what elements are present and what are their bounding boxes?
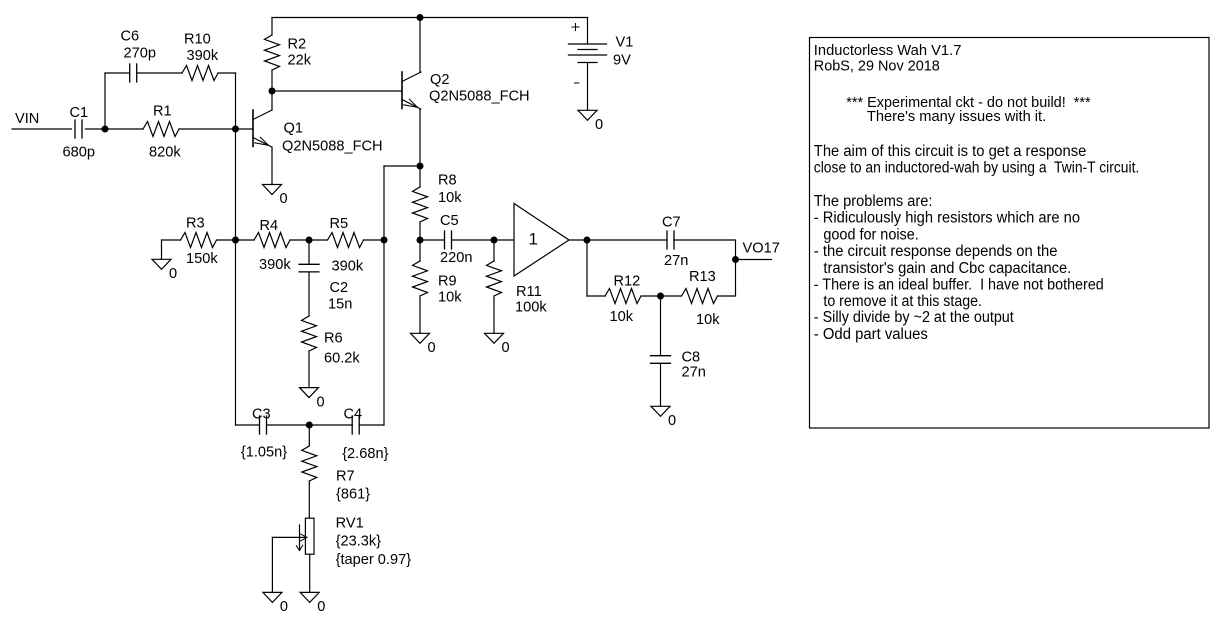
svg-text:9V: 9V xyxy=(613,53,631,69)
svg-text:- There is an ideal buffer. I: - There is an ideal buffer. I have not b… xyxy=(814,277,1104,294)
svg-text:R4: R4 xyxy=(260,218,279,234)
op-amp buffer U1 xyxy=(514,204,569,277)
wire node C to C4 xyxy=(309,424,352,426)
svg-text:0: 0 xyxy=(280,599,288,615)
wire VO17 stub xyxy=(736,259,772,261)
svg-text:C4: C4 xyxy=(344,407,363,423)
wire to C6 xyxy=(105,72,130,74)
wire Q1 emitter down xyxy=(271,147,273,185)
wire Q1 collector up xyxy=(271,91,273,110)
wire to buffer xyxy=(494,239,514,241)
wire right column down to C4 row xyxy=(383,166,385,425)
ground R11 xyxy=(485,333,504,343)
svg-text:150k: 150k xyxy=(186,251,218,267)
svg-text:C3: C3 xyxy=(252,407,271,423)
svg-text:The aim of this circuit is to: The aim of this circuit is to get a resp… xyxy=(814,143,1087,160)
svg-text:0: 0 xyxy=(317,599,325,615)
svg-text:{1.05n}: {1.05n} xyxy=(241,445,287,461)
wire C3 row left corner xyxy=(236,424,260,426)
wire C6/R10 column down xyxy=(235,73,237,129)
ground C8 xyxy=(651,406,670,416)
svg-text:0: 0 xyxy=(668,413,676,429)
wire node B to Q1 base xyxy=(236,128,254,130)
wire node A up to C6 row xyxy=(104,73,106,129)
wire Q2 emitter down xyxy=(419,109,421,166)
svg-text:Q1: Q1 xyxy=(284,121,303,137)
svg-text:390k: 390k xyxy=(259,257,291,273)
wire C4 right corner xyxy=(359,424,384,426)
resistor R2 xyxy=(271,18,273,36)
note box border xyxy=(810,38,1210,429)
svg-text:22k: 22k xyxy=(288,53,312,69)
svg-text:390k: 390k xyxy=(187,48,219,64)
svg-text:15n: 15n xyxy=(328,297,352,313)
svg-text:The problems are:: The problems are: xyxy=(814,193,933,210)
ground R9 xyxy=(411,333,430,343)
svg-text:100k: 100k xyxy=(515,300,547,316)
svg-text:R9: R9 xyxy=(438,274,457,290)
node buffer input junction xyxy=(491,237,498,244)
wire top rail xyxy=(272,17,588,19)
svg-text:transistor's gain and Cbc capa: transistor's gain and Cbc capacitance. xyxy=(823,260,1071,277)
resistor R7 xyxy=(308,425,310,446)
svg-text:{taper 0.97}: {taper 0.97} xyxy=(336,552,412,568)
ground RV1 bottom xyxy=(300,592,319,602)
node R5 right junction xyxy=(381,237,388,244)
svg-text:C6: C6 xyxy=(121,29,140,45)
ground R6 xyxy=(300,388,319,398)
svg-text:R10: R10 xyxy=(184,32,211,48)
resistor R8 xyxy=(419,166,421,187)
RV1 taper arrow xyxy=(299,525,301,550)
capacitor C2 xyxy=(308,240,310,264)
wire node A to R1 xyxy=(105,128,143,130)
svg-text:270p: 270p xyxy=(124,46,156,62)
svg-text:- Ridiculously high resistors: - Ridiculously high resistors which are … xyxy=(814,210,1080,227)
svg-text:10k: 10k xyxy=(696,312,720,328)
svg-text:Inductorless Wah V1.7: Inductorless Wah V1.7 xyxy=(814,43,962,59)
svg-text:10k: 10k xyxy=(438,190,462,206)
resistor R12 xyxy=(587,295,605,297)
wire RV1 bottom xyxy=(309,554,311,592)
capacitor C6 xyxy=(129,64,131,82)
wire R1 to node B xyxy=(179,128,236,130)
wire main left column down xyxy=(235,129,237,425)
capacitor C3 xyxy=(259,416,261,434)
svg-text:R3: R3 xyxy=(186,216,205,232)
svg-text:820k: 820k xyxy=(149,145,181,161)
node VO17 junction xyxy=(732,256,739,263)
wire R10 to node B column xyxy=(218,72,236,74)
svg-text:Q2N5088_FCH: Q2N5088_FCH xyxy=(282,139,383,155)
svg-text:C2: C2 xyxy=(330,280,349,296)
svg-text:{861}: {861} xyxy=(336,487,370,503)
ground R3 xyxy=(152,259,171,269)
capacitor C7 xyxy=(666,231,668,249)
node R4/R5/C2 junction xyxy=(306,237,313,244)
capacitor C4 xyxy=(351,416,353,434)
capacitor C1 xyxy=(74,120,76,138)
svg-text:27n: 27n xyxy=(664,253,688,269)
svg-text:60.2k: 60.2k xyxy=(324,351,360,367)
resistor R5 xyxy=(309,239,328,241)
resistor R3 xyxy=(161,240,163,259)
svg-text:27n: 27n xyxy=(682,365,706,381)
node C junction xyxy=(306,422,313,429)
svg-text:good for noise.: good for noise. xyxy=(823,226,918,243)
svg-text:There's many issues with it.: There's many issues with it. xyxy=(867,109,1046,125)
wire C3 to node C xyxy=(267,424,310,426)
resistor R4 xyxy=(236,239,255,241)
node Q2 emitter junction xyxy=(417,163,424,170)
node A junction xyxy=(102,126,109,133)
svg-text:R11: R11 xyxy=(516,284,542,300)
wire C1 to node A xyxy=(86,128,106,130)
svg-text:10k: 10k xyxy=(610,309,634,325)
resistor R10 xyxy=(182,66,218,81)
node B junction xyxy=(232,126,239,133)
node R3/R4 junction xyxy=(232,237,239,244)
wire Q1 collector to Q2 base xyxy=(272,90,402,92)
resistor R1 xyxy=(143,122,179,137)
potentiometer RV1 xyxy=(305,518,314,554)
ground Q1 emitter xyxy=(263,185,282,195)
svg-text:R8: R8 xyxy=(438,173,457,189)
V1 minus sign xyxy=(575,82,579,84)
svg-text:0: 0 xyxy=(502,340,510,356)
resistor R9 xyxy=(419,240,421,261)
svg-text:R5: R5 xyxy=(330,216,349,232)
svg-text:V1: V1 xyxy=(616,35,634,51)
svg-text:R2: R2 xyxy=(288,37,307,53)
svg-text:{23.3k}: {23.3k} xyxy=(336,534,382,550)
capacitor C8 xyxy=(660,296,662,356)
svg-text:0: 0 xyxy=(595,117,603,133)
svg-text:R6: R6 xyxy=(324,331,343,347)
wire C2 to R6 xyxy=(308,272,310,316)
svg-text:C5: C5 xyxy=(440,213,459,229)
RV1 wiper arrow xyxy=(272,536,305,538)
node R12/R13/C8 junction xyxy=(657,293,664,300)
resistor R13 xyxy=(661,295,682,297)
svg-text:390k: 390k xyxy=(332,259,364,275)
svg-text:R12: R12 xyxy=(614,274,641,290)
svg-text:680p: 680p xyxy=(63,145,95,161)
wire VIN input xyxy=(12,128,72,130)
svg-text:C7: C7 xyxy=(662,215,681,231)
svg-text:C8: C8 xyxy=(682,350,701,366)
svg-text:R13: R13 xyxy=(689,269,716,285)
transistor Q1 xyxy=(252,110,254,147)
svg-text:{2.68n}: {2.68n} xyxy=(342,446,388,462)
svg-text:- Odd part values: - Odd part values xyxy=(814,326,928,343)
svg-text:R7: R7 xyxy=(336,469,355,485)
svg-text:VO17: VO17 xyxy=(743,241,780,257)
wire output down to R12 xyxy=(586,240,588,296)
svg-text:220n: 220n xyxy=(440,250,472,266)
ground RV1 wiper xyxy=(263,592,282,602)
node top rail junction xyxy=(417,14,424,21)
V1 plus sign xyxy=(572,26,579,28)
resistor R11 xyxy=(493,240,495,261)
svg-text:0: 0 xyxy=(169,266,177,282)
svg-text:Q2N5088_FCH: Q2N5088_FCH xyxy=(429,89,530,105)
svg-text:10k: 10k xyxy=(438,290,462,306)
wire Q2 collector up to rail xyxy=(419,18,421,73)
svg-text:C1: C1 xyxy=(70,105,89,121)
svg-text:- Silly divide by ~2 at the ou: - Silly divide by ~2 at the output xyxy=(814,309,1015,326)
svg-text:1: 1 xyxy=(529,230,538,249)
capacitor C5 xyxy=(420,239,445,241)
ground V1 xyxy=(578,110,597,120)
transistor Q2 xyxy=(401,72,403,109)
wire right column down xyxy=(735,240,737,296)
svg-text:R1: R1 xyxy=(153,104,172,120)
svg-text:close to an inductored-wah by: close to an inductored-wah by using a Tw… xyxy=(814,160,1140,177)
svg-text:RobS, 29 Nov 2018: RobS, 29 Nov 2018 xyxy=(814,59,940,75)
resistor R6 xyxy=(302,316,317,351)
node Q1 collector junction xyxy=(269,88,276,95)
svg-text:to remove it at this stage.: to remove it at this stage. xyxy=(823,293,982,310)
wire C6 to R10 xyxy=(137,72,182,74)
svg-text:0: 0 xyxy=(280,191,288,207)
wire emitter node left xyxy=(384,165,420,167)
wire wiper to ground xyxy=(271,537,273,592)
svg-text:- the circuit response depends: - the circuit response depends on the xyxy=(814,243,1058,260)
svg-text:0: 0 xyxy=(317,394,325,410)
wire V1 to ground xyxy=(587,63,589,111)
svg-text:0: 0 xyxy=(428,340,436,356)
voltage source V1 battery xyxy=(587,18,589,45)
svg-text:RV1: RV1 xyxy=(336,516,364,532)
node output junction xyxy=(584,237,591,244)
wire C7 right xyxy=(674,239,736,241)
svg-text:Q2: Q2 xyxy=(430,72,449,88)
svg-text:VIN: VIN xyxy=(15,111,39,127)
wire buffer output xyxy=(569,239,667,241)
node R8/R9/C5 junction xyxy=(417,237,424,244)
